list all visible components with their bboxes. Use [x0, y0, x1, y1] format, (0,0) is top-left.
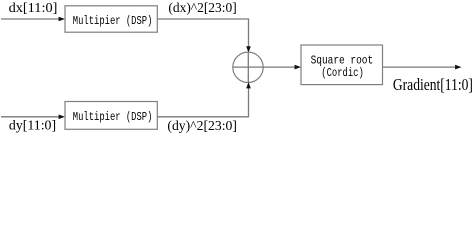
- arrowhead into multiplier U2: [59, 115, 65, 120]
- arrowhead into square root U3: [295, 65, 301, 70]
- svg-text:dy[11:0]: dy[11:0]: [9, 118, 56, 133]
- adder A1 circled plus: [233, 52, 263, 82]
- svg-text:(dx)^2[23:0]: (dx)^2[23:0]: [168, 0, 236, 16]
- square root U3 box: [301, 45, 383, 85]
- wire dy input: [1, 116, 59, 118]
- wire square root output: [383, 66, 457, 68]
- arrowhead into adder top: [246, 46, 251, 52]
- svg-text:Multipier (DSP): Multipier (DSP): [73, 110, 153, 124]
- arrowhead into multiplier U1: [59, 17, 65, 22]
- svg-text:Gradient[11:0]: Gradient[11:0]: [393, 75, 473, 94]
- arrowhead output: [455, 65, 461, 70]
- multiplier U1 box: [65, 6, 157, 32]
- arrowhead into adder bottom: [246, 82, 251, 88]
- wire dx input: [1, 18, 59, 20]
- svg-text:dx[11:0]: dx[11:0]: [9, 0, 58, 15]
- svg-text:Multipier (DSP): Multipier (DSP): [73, 14, 153, 28]
- wire adder output to square root: [263, 66, 295, 68]
- wire U1 output to adder: [157, 19, 248, 47]
- svg-text:(Cordic): (Cordic): [321, 66, 364, 80]
- multiplier U2 box: [65, 102, 157, 130]
- wire U2 output to adder: [157, 88, 248, 117]
- svg-text:(dy)^2[23:0]: (dy)^2[23:0]: [167, 118, 237, 134]
